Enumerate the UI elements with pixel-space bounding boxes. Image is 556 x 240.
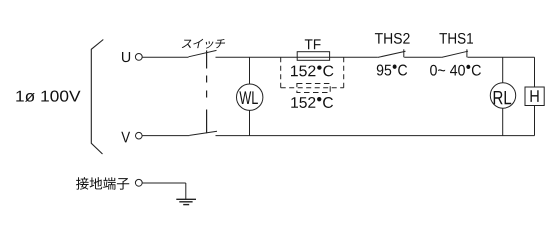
wire THS1 to right corner bbox=[468, 56, 535, 58]
label H bbox=[530, 90, 538, 102]
label 0-40C bbox=[430, 65, 481, 76]
label switch (katakana) bbox=[182, 40, 193, 48]
label THS1 bbox=[439, 33, 473, 44]
ground bar 1 bbox=[176, 198, 196, 200]
wire WL branch lower bbox=[249, 110, 251, 135]
label 152C lower bbox=[291, 97, 333, 108]
lamp WL circle bbox=[237, 84, 263, 110]
ground bar 2 bbox=[179, 201, 192, 203]
THS1 blade bbox=[442, 51, 468, 57]
thermal fuse TF body bbox=[297, 52, 329, 61]
TF dashed enclosure left side bbox=[280, 57, 282, 88]
TF dashed enclosure right side bbox=[343, 57, 345, 88]
label 1-phase 100V bbox=[16, 91, 80, 102]
THS2 contact tick bbox=[403, 49, 405, 57]
label TF bbox=[305, 39, 321, 49]
terminal V circle bbox=[136, 132, 143, 139]
wire V to switch bbox=[142, 135, 189, 137]
label 95C bbox=[377, 65, 407, 76]
wire top: switch to THS2 bbox=[216, 56, 378, 58]
label THS2 bbox=[375, 33, 410, 44]
wire THS2 to THS1 bbox=[404, 56, 441, 58]
THS2 blade bbox=[378, 51, 406, 57]
label ground terminal (kanji) bbox=[76, 177, 89, 190]
switch link bar lower bbox=[206, 110, 208, 134]
ground bar 3 bbox=[183, 204, 189, 206]
wire ground horizontal bbox=[142, 182, 186, 184]
switch link dash 1 bbox=[206, 76, 208, 83]
wire H branch lower bbox=[534, 106, 536, 136]
wire WL branch upper bbox=[249, 57, 251, 84]
wire bottom: switch to right corner bbox=[216, 135, 535, 137]
wire RL branch lower bbox=[502, 108, 504, 135]
label 152C upper bbox=[291, 65, 333, 76]
label WL bbox=[239, 91, 258, 104]
brace 1-phase supply bbox=[91, 40, 103, 155]
label U bbox=[122, 52, 130, 62]
switch upper blade bbox=[189, 50, 217, 56]
wire U to switch bbox=[142, 56, 188, 58]
wire RL branch upper bbox=[502, 57, 504, 83]
label V bbox=[121, 132, 130, 143]
heater H box bbox=[525, 87, 544, 106]
switch link bar upper bbox=[206, 50, 208, 68]
switch link dash 2 bbox=[206, 91, 208, 98]
wire H branch upper bbox=[534, 57, 536, 87]
terminal U circle bbox=[135, 54, 142, 61]
TF dashed enclosure bottom side bbox=[281, 87, 344, 89]
label RL bbox=[494, 91, 512, 104]
THS1 contact tick bbox=[466, 49, 468, 57]
wire ground vertical bbox=[185, 183, 187, 199]
spare thermal fuse dashed body bbox=[297, 84, 330, 93]
switch lower blade bbox=[189, 131, 217, 135]
lamp RL circle bbox=[490, 83, 515, 108]
terminal ground circle bbox=[135, 179, 142, 186]
